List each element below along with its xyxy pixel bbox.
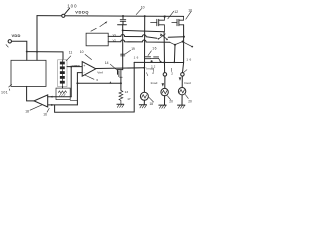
svg-text:16: 16 <box>43 113 47 117</box>
wire below pad1 <box>164 76 166 88</box>
node dot lower input <box>51 104 53 106</box>
transistor M1 <box>151 17 165 32</box>
op-amp U2 <box>82 62 96 77</box>
arrow down pad2 <box>179 77 182 80</box>
leader 11 <box>66 56 71 61</box>
wire minus feedback lead <box>77 73 82 105</box>
wire Q1 drain down <box>118 25 123 75</box>
leader 16c <box>148 51 151 56</box>
svg-text:10: 10 <box>80 50 84 54</box>
node dot pad net left <box>151 60 153 62</box>
svg-text:VDD: VDD <box>12 33 21 38</box>
leader 12a <box>168 11 174 19</box>
wire below S1 <box>143 100 145 104</box>
wire C2 vertical <box>173 45 176 63</box>
svg-text:V1: V1 <box>113 33 117 37</box>
node feedback dot <box>76 82 78 84</box>
source S1 circle <box>140 92 148 100</box>
resistor R1 zigzag <box>119 90 123 104</box>
resistor zigzag in box <box>58 91 66 94</box>
svg-text:2: 2 <box>152 71 154 75</box>
wire below S3 <box>181 95 183 105</box>
wire below pad2 <box>181 76 183 87</box>
arrow down pad1 <box>162 83 165 86</box>
svg-text:22: 22 <box>151 64 157 68</box>
wire gate stub right <box>168 36 183 39</box>
leader tick below VDD <box>6 45 8 48</box>
svg-text:Vref: Vref <box>97 70 103 74</box>
wire bias net <box>123 30 164 31</box>
transistor column Q3 <box>144 15 146 17</box>
ground G4 <box>178 104 185 106</box>
svg-text:17: 17 <box>127 97 131 101</box>
wire out1 with humps <box>108 35 157 39</box>
svg-text:V2: V2 <box>113 39 117 43</box>
node dot <box>183 36 185 38</box>
source S3 circle <box>178 88 185 95</box>
block R-box with zigzag <box>56 88 70 100</box>
wire ladder to box <box>62 87 64 89</box>
leader tick box corner <box>9 84 12 87</box>
wire U3 output left and up <box>27 86 34 101</box>
svg-text:20: 20 <box>169 99 173 103</box>
node dot q2 <box>120 82 122 84</box>
leader 14 <box>110 64 117 70</box>
leader minus input <box>85 75 95 79</box>
svg-text:Imod: Imod <box>151 81 158 85</box>
wire VREF down <box>70 67 72 97</box>
svg-text:2: 2 <box>171 71 173 75</box>
leader 18 <box>30 105 42 110</box>
source S2 circle <box>161 88 168 95</box>
wire VDD to corner <box>12 41 27 60</box>
wire connector y51.6 <box>27 52 63 60</box>
svg-text:20: 20 <box>188 99 192 103</box>
leader 20a <box>168 96 171 100</box>
svg-text:101: 101 <box>1 90 8 94</box>
wire long feedback bottom <box>55 62 135 112</box>
leader 18b <box>149 97 154 102</box>
hatch marks in box <box>59 94 65 96</box>
pad P2 circle <box>181 73 185 77</box>
node dot out end <box>143 67 145 69</box>
arrow into U3 upper input <box>50 96 53 98</box>
wire VDDQ rail <box>37 15 184 18</box>
block U1 (regulator box) <box>11 60 46 86</box>
node VDDQ terminal circle <box>62 14 65 17</box>
block U4 (predriver box) <box>86 33 108 46</box>
node VDD terminal circle <box>8 40 11 43</box>
wire rail left corner down <box>36 16 38 61</box>
wire feedback horizontal <box>77 82 121 84</box>
node VREF dot <box>70 66 72 68</box>
node dot gate2 <box>182 41 184 43</box>
wire diag gate2 arrow <box>184 42 192 46</box>
leader tick 2c <box>152 68 154 71</box>
leader box U4 <box>91 28 96 31</box>
junction dot <box>26 51 28 53</box>
apostrophe tick <box>8 89 11 91</box>
transistor Q1 top <box>122 15 124 17</box>
leader tick 2d <box>170 68 172 71</box>
transistor M2 <box>172 17 184 26</box>
wire box bottom to vertical <box>70 99 77 101</box>
transistor tap on col122 <box>121 54 125 56</box>
wire VREF tap <box>67 66 82 68</box>
svg-text:14: 14 <box>105 61 109 65</box>
svg-text:Imod: Imod <box>184 81 191 85</box>
svg-text:16: 16 <box>186 57 192 61</box>
wire below S2 <box>164 96 166 105</box>
arrow to rail <box>100 22 107 27</box>
leader 16L <box>47 108 49 112</box>
svg-text:12: 12 <box>174 10 178 14</box>
resistor ladder blocks <box>60 62 65 84</box>
node dot net <box>122 29 124 31</box>
op-amp U3 (left, pointing left) <box>34 95 48 107</box>
ground G1 <box>117 103 124 105</box>
wire diag out2 to gate2 <box>170 42 183 45</box>
wire col164 <box>163 32 166 73</box>
wire out2 with humps <box>108 40 170 42</box>
transistor Q2 <box>118 71 120 77</box>
transistor Q5 X pair <box>159 34 168 40</box>
wire Q2 down <box>120 77 122 90</box>
leader pad2 <box>184 70 187 73</box>
svg-text:19: 19 <box>131 47 135 51</box>
wire U3 lower input <box>48 104 78 106</box>
arrow up on feedback wire <box>109 81 111 83</box>
svg-text:VDDQ: VDDQ <box>75 9 89 14</box>
pad net wire <box>134 61 183 63</box>
transistor Q4 plates <box>145 57 151 59</box>
resistor ladder outline <box>58 60 67 87</box>
wire opamp out <box>96 67 145 70</box>
leader 20b <box>185 95 188 99</box>
svg-text:6: 6 <box>96 78 98 82</box>
svg-text:VREF: VREF <box>72 64 80 68</box>
leader 19 <box>125 50 130 54</box>
svg-text:10: 10 <box>141 6 145 10</box>
svg-text:18: 18 <box>150 102 154 106</box>
svg-text:13: 13 <box>125 90 129 94</box>
svg-text:10: 10 <box>188 9 192 13</box>
leader 10c <box>136 9 141 15</box>
wire ladder spine <box>62 60 64 88</box>
svg-text:16: 16 <box>134 55 140 59</box>
leader 10b <box>85 54 92 59</box>
wire col183 from rail <box>183 25 184 73</box>
svg-text:18: 18 <box>25 110 29 114</box>
svg-text:11: 11 <box>69 51 73 55</box>
ground G2 <box>139 104 146 106</box>
junction dot <box>36 51 38 53</box>
ground G3 <box>159 104 166 106</box>
pad P1 circle <box>163 73 167 77</box>
node dots on pad net <box>160 61 162 63</box>
leader 10a <box>186 11 192 19</box>
leader tick imod <box>147 73 148 76</box>
leader 100 <box>65 8 70 14</box>
node rail dot right <box>164 15 166 17</box>
svg-text:100: 100 <box>67 3 77 8</box>
wire U3 upper input <box>48 96 71 98</box>
svg-text:16: 16 <box>152 46 157 50</box>
